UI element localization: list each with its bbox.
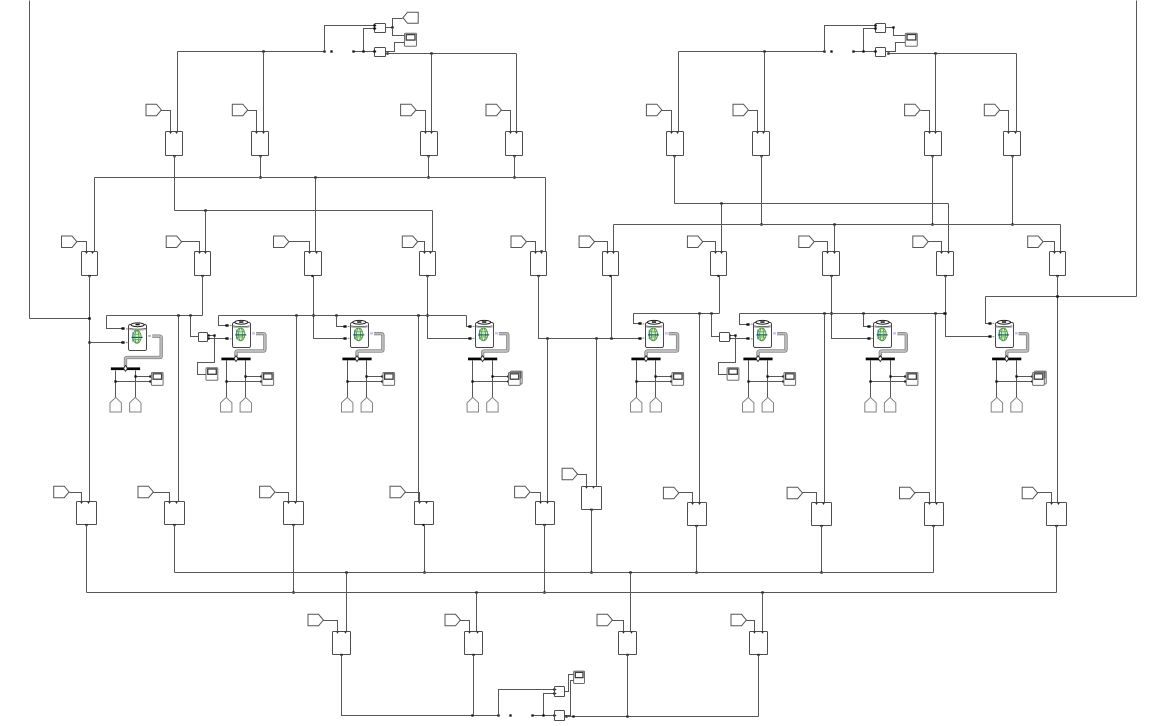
wire busA2 drop row2-9	[948, 204, 950, 252]
wire tag F1-1 elbow	[162, 111, 171, 132]
from tag F1-2	[232, 104, 247, 116]
wire R3R1 out to busA	[695, 526, 697, 574]
wires under busbar 4	[471, 361, 509, 398]
scope SC4	[509, 373, 521, 386]
node dangling dot a	[330, 50, 332, 52]
wire busA2 right	[675, 202, 949, 204]
wire topline L seg1	[107, 314, 203, 316]
wire R3-2 out to busA	[174, 525, 176, 573]
wire R2-4 out to cell4 in2	[426, 276, 471, 340]
block R2-7	[711, 252, 727, 278]
wire tag F2-7 elbow	[703, 242, 716, 252]
wire topline L seg2 drop row3-4	[418, 316, 420, 502]
wire topline L seg1 drop row3-2	[178, 316, 180, 502]
tank T7b	[884, 397, 895, 412]
from tag F2-10	[1028, 236, 1043, 248]
tank T6a	[743, 397, 754, 412]
from tag F1-5	[646, 104, 661, 116]
wire R1-5 out to busA2	[674, 156, 676, 204]
from tag F2-6	[579, 236, 594, 248]
wire bus1 left	[95, 176, 546, 178]
from tag F3-3	[260, 486, 275, 498]
wire tag F1-3 elbow	[416, 111, 426, 132]
wire tag F4-2 elbow	[461, 621, 470, 632]
wire bus y52 left	[178, 50, 326, 52]
goto tag G1	[403, 12, 418, 23]
port marks B6	[751, 324, 753, 339]
block R1-8	[1004, 132, 1021, 158]
from tag F1-7	[905, 104, 920, 116]
tank T4a	[467, 397, 478, 412]
port marks B4	[473, 327, 475, 339]
block U1 (sum top-left)	[375, 24, 386, 33]
wire R4-4 out	[758, 655, 760, 717]
wire R2-2 out drop	[202, 276, 204, 316]
scope SQS6	[727, 368, 739, 381]
wire U3 in2 feed	[862, 27, 876, 52]
from tag F4-1	[308, 614, 323, 626]
block R2-6	[603, 252, 619, 278]
wire R3R0 out to busA	[590, 510, 592, 574]
wire R2-8 out to cell7 in2	[830, 276, 870, 340]
cable B2	[236, 334, 265, 358]
from tag F2-8	[799, 236, 814, 248]
wire cell3 in1 elbow	[337, 316, 347, 328]
scope S2	[905, 33, 917, 46]
wire topline R seg1	[634, 312, 720, 314]
wire cell8 in1 elbow	[986, 297, 992, 325]
wire U1 out to goto	[386, 19, 403, 29]
wire R1-6 out to busB2	[760, 156, 762, 226]
wire busB2 drop row2-6	[613, 225, 615, 252]
wire drop to row3R0	[596, 339, 598, 487]
wire into U4	[852, 50, 876, 52]
wire R1-3 out to bus1	[427, 156, 429, 179]
wire SQ6 feed	[712, 314, 722, 338]
scope SC8	[1033, 373, 1045, 386]
block R1-3	[421, 132, 438, 158]
wire busB2 drop row2-8	[834, 225, 836, 252]
tank T8a	[991, 397, 1002, 412]
block U3 (sum top-right)	[875, 24, 885, 33]
from tag F1-1	[146, 104, 161, 116]
wire tag F2-1 elbow	[77, 242, 87, 252]
from tag F3-5	[515, 486, 530, 498]
from tag F1-8	[984, 104, 999, 116]
wire U4 to scope in2	[889, 43, 906, 52]
wire bus1 drop row2-3	[315, 178, 317, 252]
wire U4 out branch	[886, 52, 890, 55]
wire tag F3-2 elbow	[154, 493, 170, 502]
block R1-5	[667, 132, 684, 158]
battery B2	[233, 320, 256, 347]
cable B1	[126, 336, 162, 367]
wire R3-4 out to busA	[423, 525, 425, 574]
node dangling dot b	[830, 50, 832, 52]
wire R2-5 out to cell5 line	[539, 276, 642, 340]
wire R2-9 out to cell8 in2	[944, 276, 991, 338]
wire busB drop bb4	[762, 593, 764, 632]
scope SC2	[262, 373, 274, 386]
wire tag F4-3 elbow	[613, 621, 624, 632]
scope SC7	[906, 373, 918, 386]
tank T3b	[361, 397, 372, 412]
wire tag F3-3 elbow	[276, 493, 289, 502]
wire R4-1 out to bottombus	[342, 655, 500, 717]
block R1-4	[506, 132, 523, 158]
block R2-3	[305, 252, 322, 278]
svg-text:m: m	[1015, 331, 1018, 335]
wire tag F3-1 elbow	[70, 493, 82, 502]
port marks B7	[871, 327, 873, 339]
from tag F2-3	[274, 236, 289, 248]
svg-text:m: m	[370, 331, 373, 335]
block SQ2	[199, 333, 208, 342]
svg-text:m: m	[773, 331, 776, 335]
wire R1-4 out to bus1	[513, 156, 515, 179]
block R3-3	[284, 502, 304, 527]
block R4-4	[750, 632, 768, 657]
wire tag F3R-5 elbow	[1038, 493, 1052, 503]
from tag F3-2	[138, 486, 153, 498]
wire cell2 in1 elbow	[219, 316, 229, 327]
wire bus y54 right of U2	[388, 52, 517, 54]
wire R3R4 out to busB	[1056, 526, 1058, 593]
wire V1 in1 feed	[499, 688, 556, 715]
wire right feedback border	[986, 1, 1137, 298]
wires under busbar 2	[225, 361, 262, 398]
wire R4-3 out	[627, 655, 629, 717]
from tag F4-2	[445, 614, 460, 626]
block R2-1	[82, 252, 98, 278]
from tag F3R-1	[562, 468, 577, 480]
scope SC1	[151, 373, 163, 386]
block R3R-2	[688, 503, 707, 528]
node B6 in dots	[746, 323, 748, 339]
block R4-2	[465, 632, 483, 657]
svg-text:m: m	[148, 334, 151, 338]
wires under busbar 8	[995, 361, 1033, 398]
wire tag F4-4 elbow	[747, 621, 755, 632]
port marks B2	[230, 326, 232, 339]
wire topline R seg1 drop row3R1	[699, 314, 701, 503]
wires under busbar 6	[747, 361, 784, 398]
scope SC5	[672, 373, 684, 386]
from tag F2-7	[687, 236, 702, 248]
busbar BB4	[468, 356, 497, 362]
block V2 (sum bottom lower)	[555, 711, 565, 721]
scope SC4 back	[510, 371, 522, 384]
wire drop to R1-3	[431, 54, 433, 132]
node B3 in dots	[343, 325, 345, 339]
cable B4	[483, 334, 508, 358]
wire tag F4-1 elbow	[324, 621, 338, 632]
wire cell7 in1 elbow	[864, 314, 871, 328]
wire U1 in2 feed	[362, 27, 375, 52]
block R4-3	[619, 632, 637, 657]
wire cell6 in1 elbow	[740, 314, 750, 326]
wire tag F1-2 elbow	[248, 111, 257, 132]
block R3-1	[77, 502, 97, 527]
wire U2 out branch	[386, 52, 389, 55]
wire bottombus right	[567, 715, 759, 717]
svg-text:m: m	[893, 331, 896, 335]
wire cell1 in2 line	[90, 341, 124, 343]
wire bus2 left	[175, 209, 433, 211]
wire into U2	[352, 50, 375, 52]
block R2-4	[420, 252, 436, 278]
wire SQ2 out1 loop	[198, 334, 216, 374]
node B1 in dots	[122, 327, 124, 343]
wire V1 out to scope	[565, 675, 574, 692]
wire R1-7 out to busB2	[931, 156, 933, 226]
block R1-7	[925, 132, 942, 158]
block U4 (sum top-right lower)	[875, 48, 885, 57]
scope S3	[574, 671, 585, 683]
wire tag F3R-1 elbow	[578, 475, 587, 487]
busbar BB6	[743, 356, 772, 362]
wire R2-3 out to cell3 in2	[312, 276, 346, 340]
battery B6	[754, 320, 777, 347]
block R2-2	[195, 252, 211, 278]
block R2-5	[531, 252, 547, 278]
wire V1 in2 feed	[542, 692, 555, 716]
port marks B5	[642, 324, 644, 338]
wire tag F3R-3 elbow	[803, 493, 817, 503]
wire busB2 drop row2-10	[1060, 225, 1062, 252]
from tag F3-4	[390, 486, 405, 498]
svg-text:m: m	[665, 331, 668, 335]
wire drop to row3L5	[547, 339, 549, 502]
wire cell5 in1 elbow	[634, 314, 642, 325]
wire cell4 in1 elbow	[467, 316, 472, 328]
block R1-1	[166, 132, 183, 158]
wire tag F1-6 elbow	[749, 111, 758, 132]
block U2 (sum top-left lower)	[375, 48, 386, 57]
wire drop to R1-1	[177, 52, 179, 132]
battery B7	[874, 320, 897, 347]
block R2-9	[937, 252, 954, 278]
tank T2a	[221, 397, 232, 412]
wire tag F2-3 elbow	[289, 242, 310, 252]
tank T5a	[631, 397, 642, 412]
wire SQ6 out2	[728, 337, 749, 339]
wire tag F2-4 elbow	[418, 242, 425, 252]
wire topline L seg2 drop row3-3	[296, 316, 298, 502]
tank T4b	[487, 397, 498, 412]
wire tag F3-4 elbow	[406, 493, 420, 502]
block R3-2	[165, 502, 185, 527]
wire into U1 in1	[325, 24, 376, 51]
block R4-1	[333, 632, 351, 657]
wire busB2 right	[614, 223, 1061, 225]
wire R1-2 out to bus1	[259, 156, 261, 179]
from tag F3R-3	[787, 487, 802, 499]
block R3R-4	[925, 503, 944, 528]
wire drop to R1-5	[678, 52, 680, 132]
wire drop to R1-4	[516, 54, 518, 132]
wire tag F1-4 elbow	[502, 111, 511, 132]
wire busA drop bb1	[346, 573, 348, 632]
from tag F4-3	[597, 614, 612, 626]
cable B5	[646, 334, 678, 358]
tank T2b	[240, 397, 251, 412]
tank T1a	[110, 397, 121, 412]
wire busA2 drop row2-7	[721, 204, 723, 252]
wire tag F1-5 elbow	[662, 111, 672, 132]
wire into V2	[531, 714, 555, 716]
cable B7	[880, 334, 906, 358]
wire R3R2 out to busA	[820, 526, 822, 574]
wire topline R seg2 drop row3R3	[935, 314, 937, 503]
block R3-4	[415, 502, 434, 527]
scope SC3	[383, 373, 395, 386]
wire tag F1-7 elbow	[921, 111, 930, 132]
block V1 (sum bottom)	[555, 687, 565, 697]
wire tag F2-5 elbow	[527, 242, 536, 252]
from tag F1-6	[733, 104, 748, 116]
wire bus y52 rightcluster	[679, 50, 826, 52]
svg-text:m: m	[495, 331, 498, 335]
wire tag F2-9 elbow	[929, 242, 942, 252]
wire topline R seg2	[740, 312, 946, 314]
wire R1-8 out to busB2	[1011, 156, 1013, 226]
scope SQS2	[206, 368, 218, 381]
wire tag F3-5 elbow	[531, 493, 541, 502]
block R3-5	[536, 502, 555, 527]
wire drop to R1-6	[764, 52, 766, 132]
from tag F1-3	[401, 104, 416, 116]
busbar BB5	[631, 356, 660, 362]
wires under busbar 5	[635, 361, 672, 398]
battery B4	[476, 320, 498, 347]
wire tag F3R-4 elbow	[915, 493, 930, 503]
wire cell1 in1 elbow	[107, 316, 124, 330]
tank T8b	[1011, 397, 1022, 412]
from tag F1-4	[486, 104, 501, 116]
node dangling dot c	[509, 714, 511, 716]
from tag F3R-2	[663, 487, 678, 499]
battery B1	[129, 323, 152, 351]
svg-text:m: m	[252, 331, 255, 335]
node B2 in dots	[225, 324, 227, 339]
wire U2 to scope in2	[388, 43, 405, 52]
wire bus2 drop row2-2	[205, 211, 207, 252]
battery B5	[646, 320, 668, 347]
cable B8	[1007, 334, 1028, 358]
from tag F2-9	[913, 236, 928, 248]
tank T7a	[865, 397, 876, 412]
node B5 in dots	[638, 322, 640, 339]
from tag F3R-4	[900, 487, 915, 499]
wire tag F2-6 elbow	[595, 242, 608, 252]
busbar BB8	[992, 356, 1021, 362]
port marks B8	[992, 323, 994, 336]
tank T5b	[650, 397, 661, 412]
wire R2-1 out long drop	[88, 276, 90, 502]
node B8 in dots	[988, 322, 990, 337]
wires under busbar 1	[114, 371, 151, 398]
from tag F2-5	[511, 236, 526, 248]
wire R2-7 out drop	[719, 276, 721, 314]
busbar BB1	[111, 365, 140, 371]
block R1-6	[753, 132, 770, 158]
wire R3-1 out to busB	[86, 525, 88, 593]
wire drop to R1-7	[935, 54, 937, 132]
wire R3-5 out to busB	[543, 525, 545, 594]
block R2-8	[823, 252, 840, 278]
node B7 in dots	[867, 325, 869, 339]
wire bus2 drop row2-4	[432, 211, 434, 252]
wire topline L seg2	[219, 314, 467, 316]
from tag F2-4	[402, 236, 417, 248]
wire tag F3R-2 elbow	[679, 493, 693, 503]
wire busB drop bb2	[476, 593, 478, 632]
wire R1-1 out to bus2	[174, 156, 176, 211]
block SQ6	[720, 333, 730, 342]
block R3R-3	[812, 503, 832, 528]
wire tag F1-8 elbow	[1000, 111, 1009, 132]
wire V2 to scope in2	[567, 681, 574, 716]
busbar BB3	[342, 356, 371, 362]
tank T6b	[762, 397, 773, 412]
wire V2 out branch	[565, 715, 568, 717]
wire R4-2 out	[473, 655, 475, 716]
battery B3	[351, 320, 374, 347]
cable B6	[758, 334, 786, 358]
from tag F2-1	[62, 236, 77, 248]
wire bus1 drop row2-5	[540, 178, 545, 253]
tank T3a	[342, 397, 353, 412]
wire busB	[87, 591, 1057, 593]
wire bus y54 right of U4	[889, 52, 1017, 54]
wire busA	[175, 571, 934, 573]
wire left feedback border	[30, 1, 91, 320]
scope SC6	[784, 373, 796, 386]
port marks B3	[348, 327, 350, 339]
wires under busbar 7	[869, 361, 906, 398]
wire drop to R1-2	[263, 52, 265, 132]
node B4 in dots	[468, 325, 470, 339]
port marks B1	[126, 329, 128, 343]
scope SC8 back	[1035, 371, 1047, 384]
wire topline R seg2 drop row3R2	[824, 314, 826, 503]
wire tag F2-8 elbow	[815, 242, 828, 252]
from tag F2-2	[166, 236, 181, 248]
block R2-10	[1050, 252, 1066, 278]
wire drop to R1-8	[1016, 54, 1018, 132]
wire tag F2-2 elbow	[182, 242, 200, 252]
from tag F4-4	[731, 614, 746, 626]
battery B8	[996, 320, 1018, 347]
wire U1 out to scope in1	[393, 28, 405, 36]
wire R2-6 out drop	[611, 276, 613, 339]
block R1-2	[252, 132, 269, 158]
busbar BB7	[866, 356, 895, 362]
wire R3R3 out to busA	[933, 526, 935, 573]
wire bus1 drop row2-1	[94, 178, 96, 252]
wire R3-3 out to busB	[292, 525, 294, 594]
scope S1	[405, 33, 417, 46]
wire busA drop bb3	[630, 573, 632, 632]
wire tag F2-10 elbow	[1044, 242, 1055, 252]
tank T1b	[130, 397, 141, 412]
from tag F3-1	[54, 486, 69, 498]
busbar BB2	[221, 356, 250, 362]
wire R2-10 out long drop	[1056, 276, 1058, 503]
wire SQ2 out2	[207, 337, 228, 339]
from tag F3R-5	[1022, 487, 1037, 499]
